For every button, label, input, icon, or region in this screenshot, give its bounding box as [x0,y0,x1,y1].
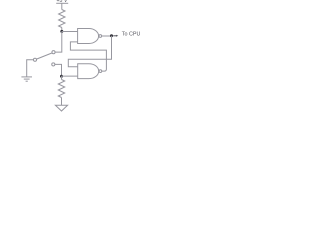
ground (triangle) [55,105,67,111]
wire U2 output to U1 input 2 [70,42,106,71]
resistor R2 [58,80,64,98]
switch contact 2 [52,63,55,66]
wire node Q to U2 input 1 [68,36,111,67]
wire node B to R2 [61,76,63,79]
earth ground [21,77,32,81]
wire pole to ground [27,60,34,77]
node A junction dot [60,30,63,33]
wire contact 2 to node B [55,64,62,76]
switch contact 1 [52,51,55,54]
wire R1 to node A [61,28,63,32]
wire node A down to switch contact 1 [55,31,62,52]
wire R2 to ground [61,98,63,106]
node B junction dot [60,75,63,78]
resistor R1 [59,10,65,28]
switch lever SW1 [37,53,52,59]
arrow to CPU [113,35,118,37]
wire node A to U1 input 1 [62,31,78,33]
nand gate U1 output bubble [99,35,102,38]
nand gate U2 output bubble [99,70,102,73]
nand gate U1 body [78,29,99,44]
svg-text:To CPU: To CPU [122,31,141,37]
wire node B to U2 input 2 [62,75,78,77]
nand gate U2 body [78,64,99,79]
power rail bar VCC [56,2,68,4]
switch pole contact [33,58,36,61]
wire U1 output to node Q [102,35,112,37]
wire VCC bar to R1 [61,3,63,9]
node Q junction dot [110,34,113,37]
